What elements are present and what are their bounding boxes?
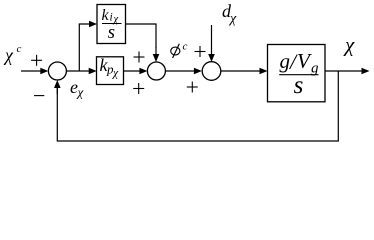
wire disturbance down into S3 bbox=[208, 25, 215, 62]
plus sign at S2 upper input bbox=[134, 52, 145, 63]
integrator block ki/s bbox=[97, 5, 126, 44]
svg-text:χ: χ bbox=[3, 45, 14, 65]
plus sign at S2 lower input bbox=[133, 83, 144, 94]
wire S3 output into plant block bbox=[221, 68, 268, 75]
wire feedback arrow into S1 bottom bbox=[54, 80, 61, 94]
svg-text:c: c bbox=[183, 41, 188, 53]
node phi^c (roll command label) bbox=[171, 41, 188, 59]
svg-text:V: V bbox=[297, 49, 312, 73]
summing junction S2 bbox=[147, 62, 165, 80]
svg-text:χ: χ bbox=[76, 85, 84, 100]
wire plant output arrow bbox=[325, 68, 370, 75]
node chi (output label) bbox=[343, 33, 355, 57]
minus sign at S1 feedback input bbox=[34, 95, 44, 97]
summing junction S1 bbox=[48, 62, 66, 80]
svg-text:c: c bbox=[17, 43, 22, 55]
node d_chi (disturbance label) bbox=[222, 1, 237, 27]
node chi^c (command input label) bbox=[3, 43, 22, 65]
proportional block kp bbox=[97, 55, 124, 85]
summing junction S3 bbox=[202, 62, 221, 81]
wire feedback from output branch down and left bbox=[57, 71, 338, 141]
plus sign at S3 lower input bbox=[187, 82, 198, 93]
svg-text:s: s bbox=[108, 22, 115, 43]
svg-text:χ: χ bbox=[343, 33, 355, 57]
node e_chi (error label) bbox=[70, 77, 84, 100]
svg-text:g: g bbox=[280, 49, 291, 73]
plus sign at S1 input bbox=[31, 55, 42, 66]
plant block g/Vg over s bbox=[268, 45, 326, 102]
wire S1 output to kp block with branch junction bbox=[66, 68, 96, 75]
svg-text:g: g bbox=[311, 61, 319, 77]
svg-text:χ: χ bbox=[228, 12, 237, 27]
wire branch up to ki block bbox=[79, 21, 97, 71]
wire input arrow into summing junction S1 bbox=[21, 68, 48, 75]
svg-text:χ: χ bbox=[112, 68, 119, 80]
plus sign at S3 upper input bbox=[195, 46, 206, 57]
svg-text:s: s bbox=[294, 72, 304, 99]
wire kp output into S2 bbox=[124, 68, 148, 75]
wire S2 output into summing junction S3 bbox=[165, 68, 202, 75]
wire ki output down into summing junction S2 bbox=[126, 24, 160, 62]
